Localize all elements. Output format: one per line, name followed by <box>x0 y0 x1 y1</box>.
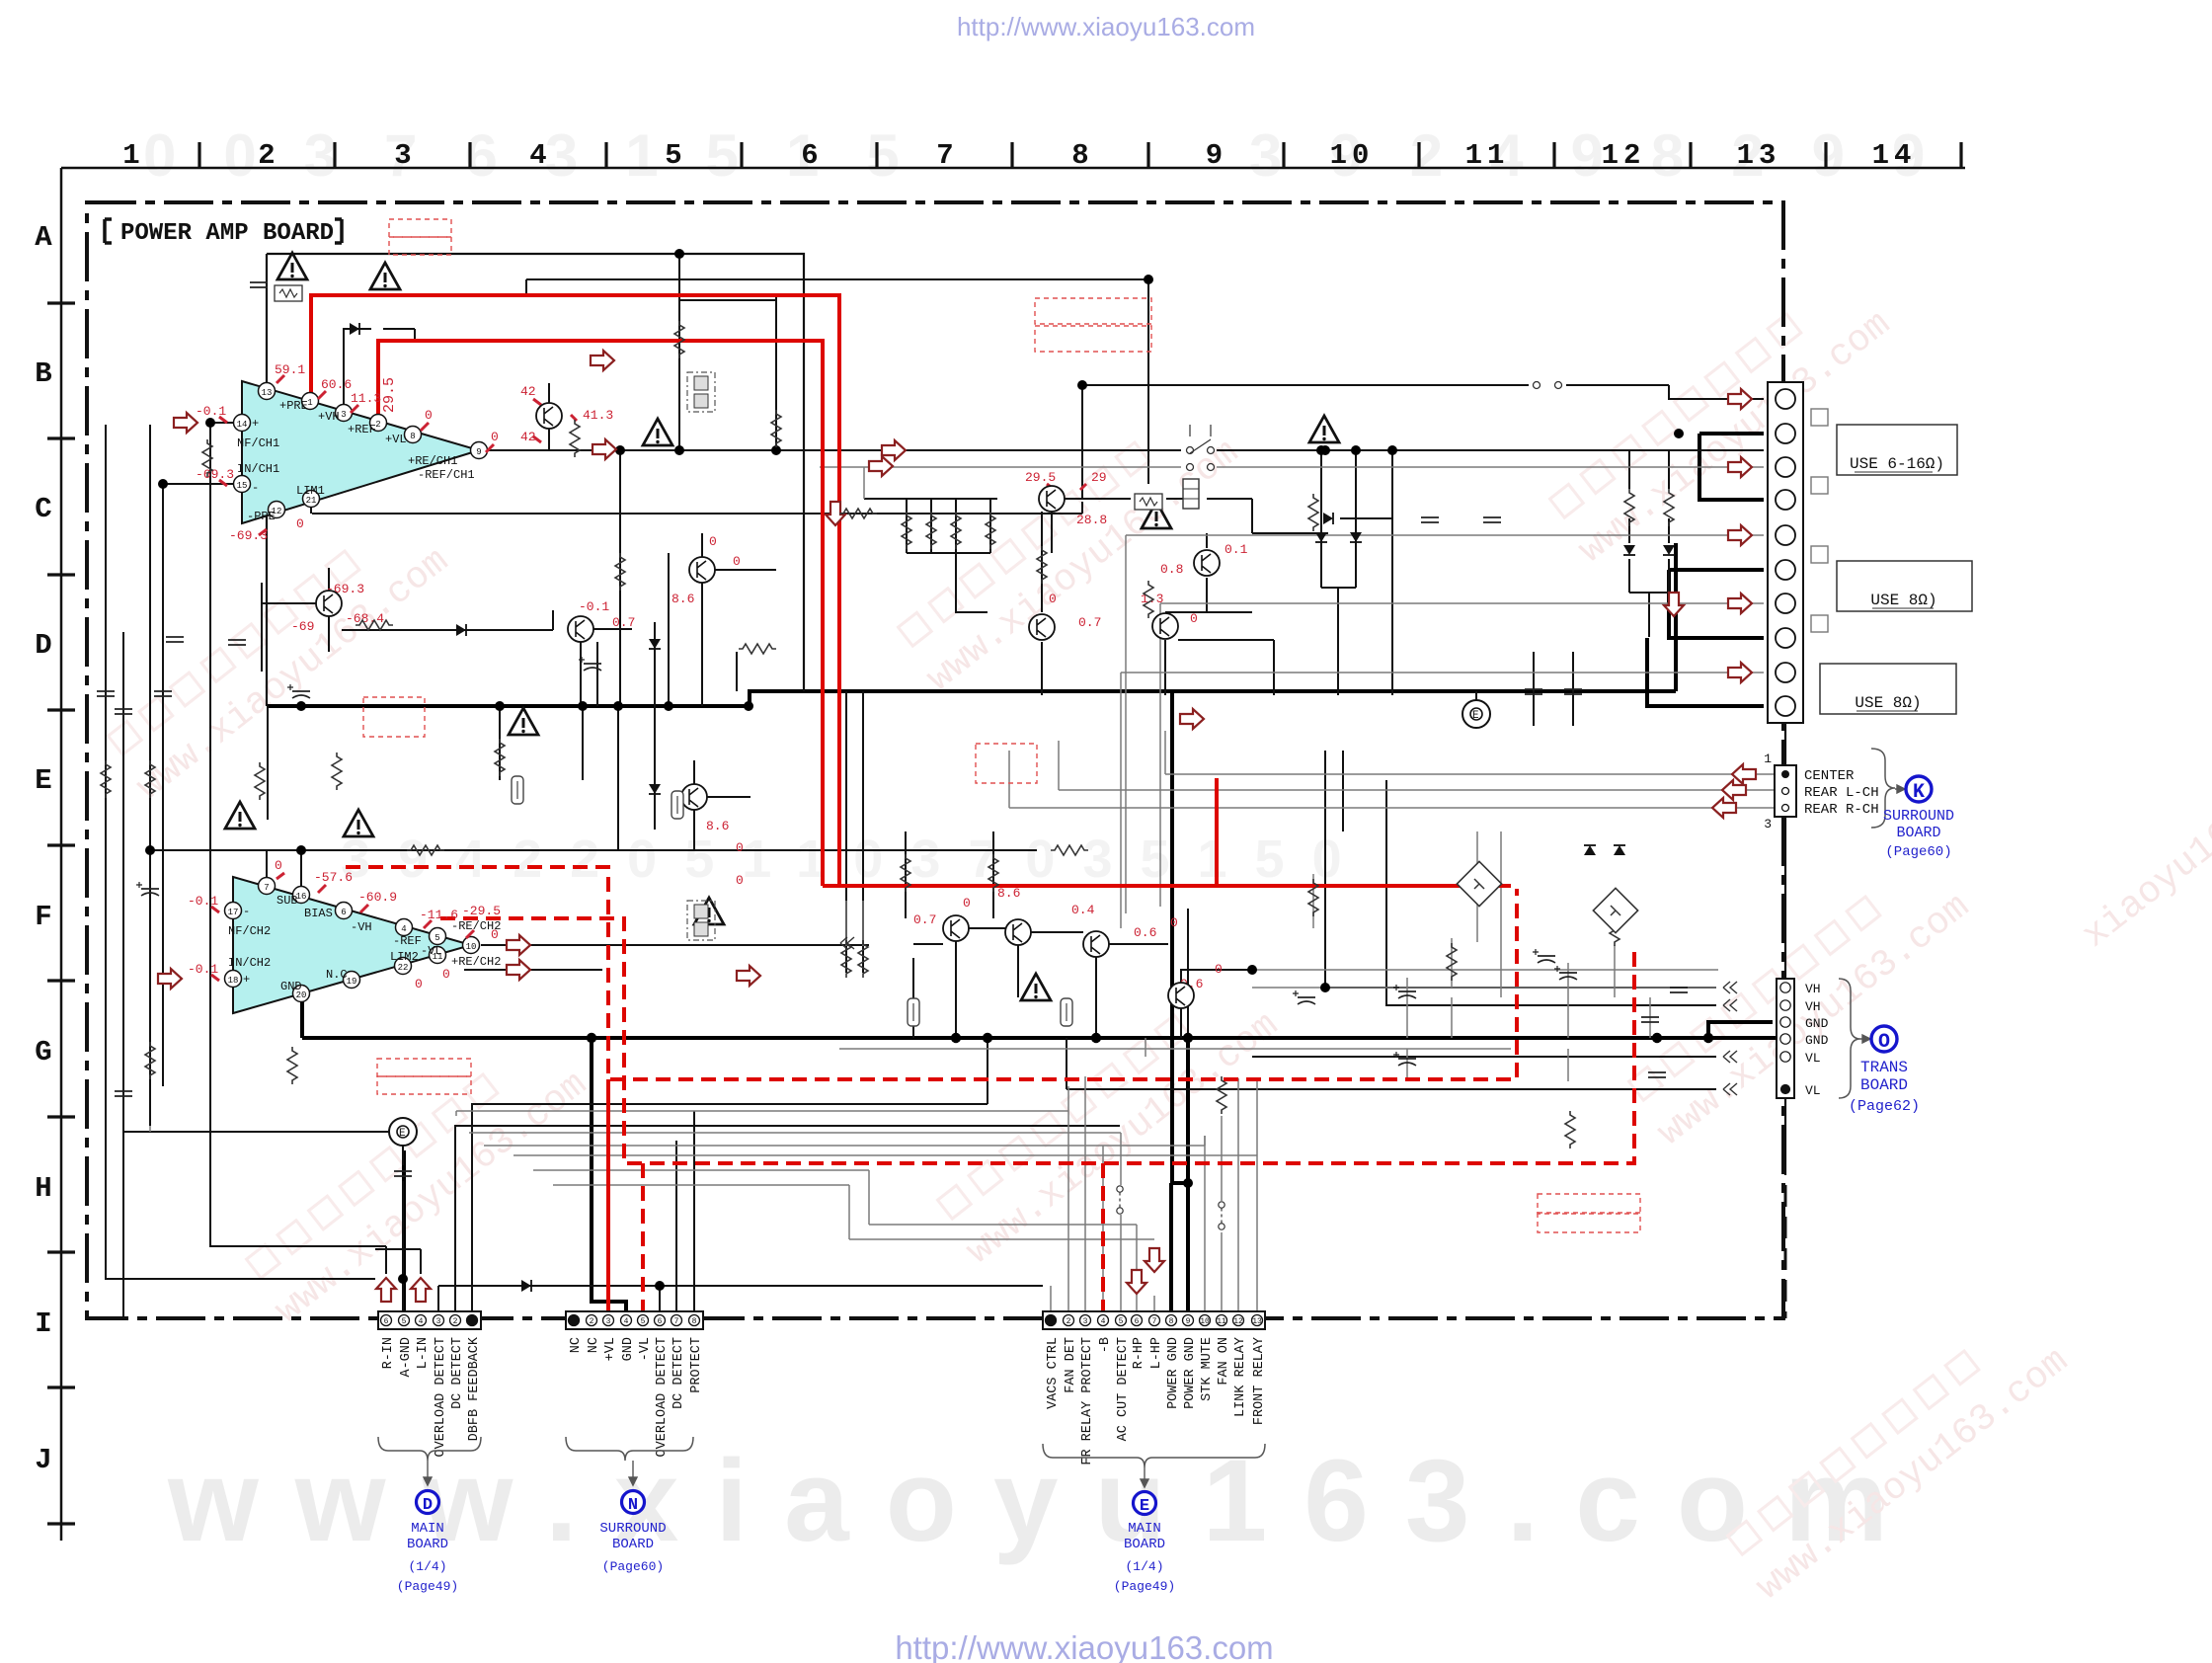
svg-text:DC DETECT: DC DETECT <box>671 1337 686 1409</box>
svg-text:9: 9 <box>1186 1317 1191 1326</box>
svg-text:-69: -69 <box>291 619 314 634</box>
svg-text:D: D <box>35 629 51 662</box>
svg-text:3: 3 <box>1764 817 1772 831</box>
svg-text:-0.1: -0.1 <box>188 894 218 909</box>
svg-text:GND: GND <box>1805 1016 1829 1031</box>
svg-text:3: 3 <box>436 1317 441 1326</box>
svg-text:0: 0 <box>275 858 282 873</box>
svg-text:O: O <box>1878 1031 1890 1054</box>
svg-text:5: 5 <box>641 1317 646 1326</box>
svg-text:BIAS: BIAS <box>304 907 333 920</box>
svg-text:+VH: +VH <box>318 410 340 424</box>
svg-text:13: 13 <box>1737 139 1781 172</box>
svg-text:USE 8Ω): USE 8Ω) <box>1855 694 1921 712</box>
svg-text:4: 4 <box>419 1317 424 1326</box>
svg-text:-69.3: -69.3 <box>229 528 268 543</box>
svg-text:13: 13 <box>1252 1317 1262 1326</box>
svg-text:5: 5 <box>402 1317 407 1326</box>
svg-text:USE 8Ω): USE 8Ω) <box>1870 592 1936 609</box>
svg-text:0.4: 0.4 <box>1071 903 1095 917</box>
svg-text:REAR L-CH: REAR L-CH <box>1804 785 1879 801</box>
svg-text:(Page60): (Page60) <box>1885 844 1951 860</box>
svg-text:11: 11 <box>1465 139 1510 172</box>
svg-text:4: 4 <box>401 924 406 934</box>
svg-text:15: 15 <box>237 481 248 491</box>
svg-text:0: 0 <box>736 873 744 888</box>
svg-text:+: + <box>252 417 259 431</box>
svg-text:H: H <box>35 1172 51 1205</box>
svg-text:VL: VL <box>1805 1083 1821 1098</box>
svg-text:+: + <box>243 973 250 987</box>
svg-text:14: 14 <box>237 420 248 430</box>
svg-text:MAIN: MAIN <box>1128 1521 1161 1537</box>
svg-text:-PRE: -PRE <box>247 510 276 523</box>
svg-text:19: 19 <box>347 977 357 987</box>
svg-text:GND: GND <box>280 980 302 993</box>
svg-text:+VL: +VL <box>603 1337 618 1361</box>
svg-text:1: 1 <box>307 398 312 408</box>
svg-text:11: 11 <box>1217 1317 1226 1326</box>
svg-text:L-IN: L-IN <box>416 1337 431 1369</box>
svg-text:NC: NC <box>569 1337 584 1353</box>
svg-text:-29.5: -29.5 <box>462 904 501 918</box>
svg-text:SURROUND: SURROUND <box>599 1521 666 1537</box>
svg-text:USE 6-16Ω): USE 6-16Ω) <box>1850 455 1944 473</box>
svg-text:NC: NC <box>587 1337 601 1353</box>
svg-text:CENTER: CENTER <box>1804 768 1855 784</box>
svg-text:B: B <box>35 357 51 390</box>
svg-text:10: 10 <box>1330 139 1375 172</box>
svg-text:6: 6 <box>1135 1317 1140 1326</box>
svg-text:41.3: 41.3 <box>583 408 613 423</box>
svg-text:-60.9: -60.9 <box>358 890 397 905</box>
svg-text:E: E <box>1140 1497 1149 1516</box>
svg-text:-VL: -VL <box>421 944 442 958</box>
svg-text:10: 10 <box>466 942 477 952</box>
svg-text:12: 12 <box>1602 139 1646 172</box>
svg-text:-0.1: -0.1 <box>196 404 226 419</box>
svg-text:K: K <box>1913 781 1925 804</box>
svg-text:0: 0 <box>709 534 717 549</box>
svg-text:NF/CH1: NF/CH1 <box>237 436 279 450</box>
svg-text:+VL: +VL <box>385 433 407 446</box>
svg-text:0.8: 0.8 <box>1160 562 1183 577</box>
svg-text:4: 4 <box>1101 1317 1106 1326</box>
svg-text:6: 6 <box>384 1317 389 1326</box>
svg-text:7: 7 <box>674 1317 679 1326</box>
svg-text:POWER AMP BOARD: POWER AMP BOARD <box>120 220 334 247</box>
svg-text:SUB: SUB <box>276 894 298 908</box>
svg-text:VH: VH <box>1805 999 1821 1014</box>
svg-text:+RE/CH1: +RE/CH1 <box>408 454 457 468</box>
svg-text:DBFB FEEDBACK: DBFB FEEDBACK <box>467 1336 482 1441</box>
svg-text:0: 0 <box>963 896 971 911</box>
svg-text:MAIN: MAIN <box>411 1521 444 1537</box>
svg-text:4: 4 <box>529 139 546 172</box>
svg-text:6: 6 <box>658 1317 663 1326</box>
svg-text:+REF: +REF <box>348 423 376 436</box>
svg-text:0: 0 <box>296 516 304 531</box>
svg-text:AC CUT DETECT: AC CUT DETECT <box>1116 1337 1131 1441</box>
svg-text:OVERLOAD DETECT: OVERLOAD DETECT <box>434 1337 448 1458</box>
svg-text:11.3: 11.3 <box>351 391 381 406</box>
svg-text:17: 17 <box>228 908 239 917</box>
svg-text:9: 9 <box>476 447 481 457</box>
svg-text:+PRE: +PRE <box>279 399 308 413</box>
svg-text:5: 5 <box>434 933 439 943</box>
svg-text:-REF: -REF <box>393 934 422 948</box>
svg-text:-: - <box>252 481 259 495</box>
svg-text:I: I <box>35 1307 51 1340</box>
svg-text:2: 2 <box>453 1317 458 1326</box>
svg-text:0.7: 0.7 <box>913 912 936 927</box>
svg-text:8: 8 <box>410 432 415 441</box>
svg-text:0: 0 <box>425 408 433 423</box>
svg-text:0: 0 <box>491 927 499 942</box>
svg-text:NF/CH2: NF/CH2 <box>228 924 271 938</box>
svg-text:0: 0 <box>415 977 423 991</box>
svg-text:18: 18 <box>228 976 239 986</box>
svg-text:0: 0 <box>491 430 499 444</box>
svg-text:(1/4): (1/4) <box>408 1559 446 1574</box>
svg-text:0: 0 <box>1215 962 1223 977</box>
svg-text:13: 13 <box>262 388 273 398</box>
svg-text:12: 12 <box>1233 1317 1243 1326</box>
svg-text:0: 0 <box>736 840 744 855</box>
svg-text:-REF/CH1: -REF/CH1 <box>418 468 475 482</box>
svg-text:2: 2 <box>375 420 380 430</box>
svg-text:3: 3 <box>394 139 411 172</box>
svg-text:4: 4 <box>624 1317 629 1326</box>
svg-text:PROTECT: PROTECT <box>689 1337 704 1393</box>
svg-text:5: 5 <box>665 139 681 172</box>
svg-text:GND: GND <box>621 1337 636 1361</box>
svg-text:42: 42 <box>520 384 536 399</box>
svg-text:FR RELAY PROTECT: FR RELAY PROTECT <box>1080 1337 1095 1465</box>
svg-text:A: A <box>35 221 52 254</box>
svg-text:POWER GND: POWER GND <box>1183 1337 1198 1409</box>
svg-text:8: 8 <box>692 1317 697 1326</box>
svg-text:29.5: 29.5 <box>1025 470 1056 485</box>
svg-text:J: J <box>35 1444 51 1476</box>
svg-text:3: 3 <box>341 410 346 420</box>
svg-text:R-HP: R-HP <box>1132 1337 1146 1369</box>
svg-text:A-GND: A-GND <box>399 1337 414 1378</box>
svg-text:5: 5 <box>1119 1317 1124 1326</box>
svg-text:E: E <box>35 764 51 797</box>
svg-text:2: 2 <box>1066 1317 1071 1326</box>
svg-text:(Page49): (Page49) <box>1114 1579 1175 1594</box>
svg-text:28.8: 28.8 <box>1076 513 1107 527</box>
svg-text:GND: GND <box>1805 1033 1829 1048</box>
svg-text:(Page62): (Page62) <box>1849 1098 1920 1115</box>
svg-text:2: 2 <box>590 1317 594 1326</box>
svg-text:(1/4): (1/4) <box>1125 1559 1163 1574</box>
svg-text:0: 0 <box>1190 611 1198 626</box>
svg-text:7: 7 <box>1152 1317 1157 1326</box>
svg-text:0.7: 0.7 <box>1078 615 1101 630</box>
svg-text:-B: -B <box>1098 1337 1113 1353</box>
svg-text:-VL: -VL <box>638 1337 653 1361</box>
svg-text:C: C <box>35 493 51 525</box>
svg-text:POWER GND: POWER GND <box>1166 1337 1181 1409</box>
svg-text:VL: VL <box>1805 1051 1821 1066</box>
svg-text:6: 6 <box>341 908 346 917</box>
svg-text:9: 9 <box>1206 139 1227 172</box>
svg-text:SURROUND: SURROUND <box>1883 808 1954 825</box>
svg-text:BOARD: BOARD <box>1896 825 1940 841</box>
svg-text:7: 7 <box>936 139 953 172</box>
svg-text:8.6: 8.6 <box>997 886 1020 901</box>
svg-text:-VH: -VH <box>351 920 372 934</box>
svg-text:59.1: 59.1 <box>275 362 305 377</box>
svg-text:29: 29 <box>1091 470 1107 485</box>
svg-text:R-IN: R-IN <box>381 1337 396 1369</box>
svg-text:BOARD: BOARD <box>1860 1076 1908 1094</box>
svg-text:IN/CH2: IN/CH2 <box>228 956 271 970</box>
svg-text:0.1: 0.1 <box>1224 542 1248 557</box>
svg-text:LIM2: LIM2 <box>390 950 419 964</box>
svg-text:3: 3 <box>606 1317 611 1326</box>
svg-text:D: D <box>423 1496 433 1515</box>
svg-text:IN/CH1: IN/CH1 <box>237 462 279 476</box>
svg-text:+RE/CH2: +RE/CH2 <box>451 955 501 969</box>
svg-text:7: 7 <box>264 883 269 893</box>
svg-text:22: 22 <box>398 963 409 973</box>
svg-text:6: 6 <box>801 139 818 172</box>
svg-text:DC DETECT: DC DETECT <box>450 1337 465 1409</box>
svg-text:F: F <box>35 901 51 933</box>
svg-text:VACS CTRL: VACS CTRL <box>1046 1337 1061 1409</box>
svg-text:0.7: 0.7 <box>612 615 635 630</box>
svg-text:(Page49): (Page49) <box>397 1579 458 1594</box>
svg-text:0: 0 <box>442 967 450 982</box>
svg-text:L-HP: L-HP <box>1149 1337 1164 1369</box>
svg-text:14: 14 <box>1872 139 1917 172</box>
svg-text:60.6: 60.6 <box>321 377 352 392</box>
svg-text:2: 2 <box>258 139 275 172</box>
svg-text:29.5: 29.5 <box>381 377 398 413</box>
svg-text:8: 8 <box>1169 1317 1174 1326</box>
svg-text:0: 0 <box>733 554 741 569</box>
svg-text:-57.6: -57.6 <box>314 870 353 885</box>
svg-text:1: 1 <box>122 139 139 172</box>
svg-text:0: 0 <box>1170 915 1178 930</box>
svg-text:TRANS: TRANS <box>1860 1059 1908 1076</box>
svg-text:8.6: 8.6 <box>706 819 729 833</box>
svg-text:G: G <box>35 1036 51 1069</box>
svg-text:BOARD: BOARD <box>1124 1537 1165 1552</box>
svg-text:3: 3 <box>1083 1317 1088 1326</box>
svg-text:VH: VH <box>1805 982 1821 996</box>
svg-text:(Page60): (Page60) <box>602 1559 664 1574</box>
svg-text:http://www.xiaoyu163.com: http://www.xiaoyu163.com <box>895 1629 1273 1663</box>
svg-text:LIM1: LIM1 <box>296 484 325 498</box>
svg-text:REAR R-CH: REAR R-CH <box>1804 802 1879 818</box>
svg-text:0.6: 0.6 <box>1134 925 1156 940</box>
svg-text:-11.6: -11.6 <box>420 908 458 922</box>
svg-text:8: 8 <box>1071 139 1088 172</box>
svg-text:FAN ON: FAN ON <box>1217 1337 1231 1386</box>
svg-text:10: 10 <box>1200 1317 1210 1326</box>
svg-text:-0.1: -0.1 <box>188 962 218 977</box>
svg-text:N: N <box>628 1496 638 1515</box>
svg-text:http://www.xiaoyu163.com: http://www.xiaoyu163.com <box>957 12 1255 41</box>
svg-text:-: - <box>243 905 250 918</box>
svg-text:FRONT RELAY: FRONT RELAY <box>1252 1337 1267 1425</box>
svg-text:LINK RELAY: LINK RELAY <box>1233 1337 1248 1417</box>
svg-text:OVERLOAD DETECT: OVERLOAD DETECT <box>655 1337 670 1458</box>
svg-text:1: 1 <box>1764 752 1772 766</box>
svg-text:N.C: N.C <box>326 968 348 982</box>
svg-text:BOARD: BOARD <box>407 1537 448 1552</box>
svg-text:STK MUTE: STK MUTE <box>1200 1337 1215 1401</box>
svg-text:FAN DET: FAN DET <box>1064 1337 1078 1393</box>
svg-text:-0.1: -0.1 <box>579 599 609 614</box>
svg-text:8.6: 8.6 <box>671 592 694 606</box>
svg-text:-69.3: -69.3 <box>196 467 234 482</box>
svg-text:BOARD: BOARD <box>612 1537 654 1552</box>
svg-text:0: 0 <box>1049 592 1057 606</box>
